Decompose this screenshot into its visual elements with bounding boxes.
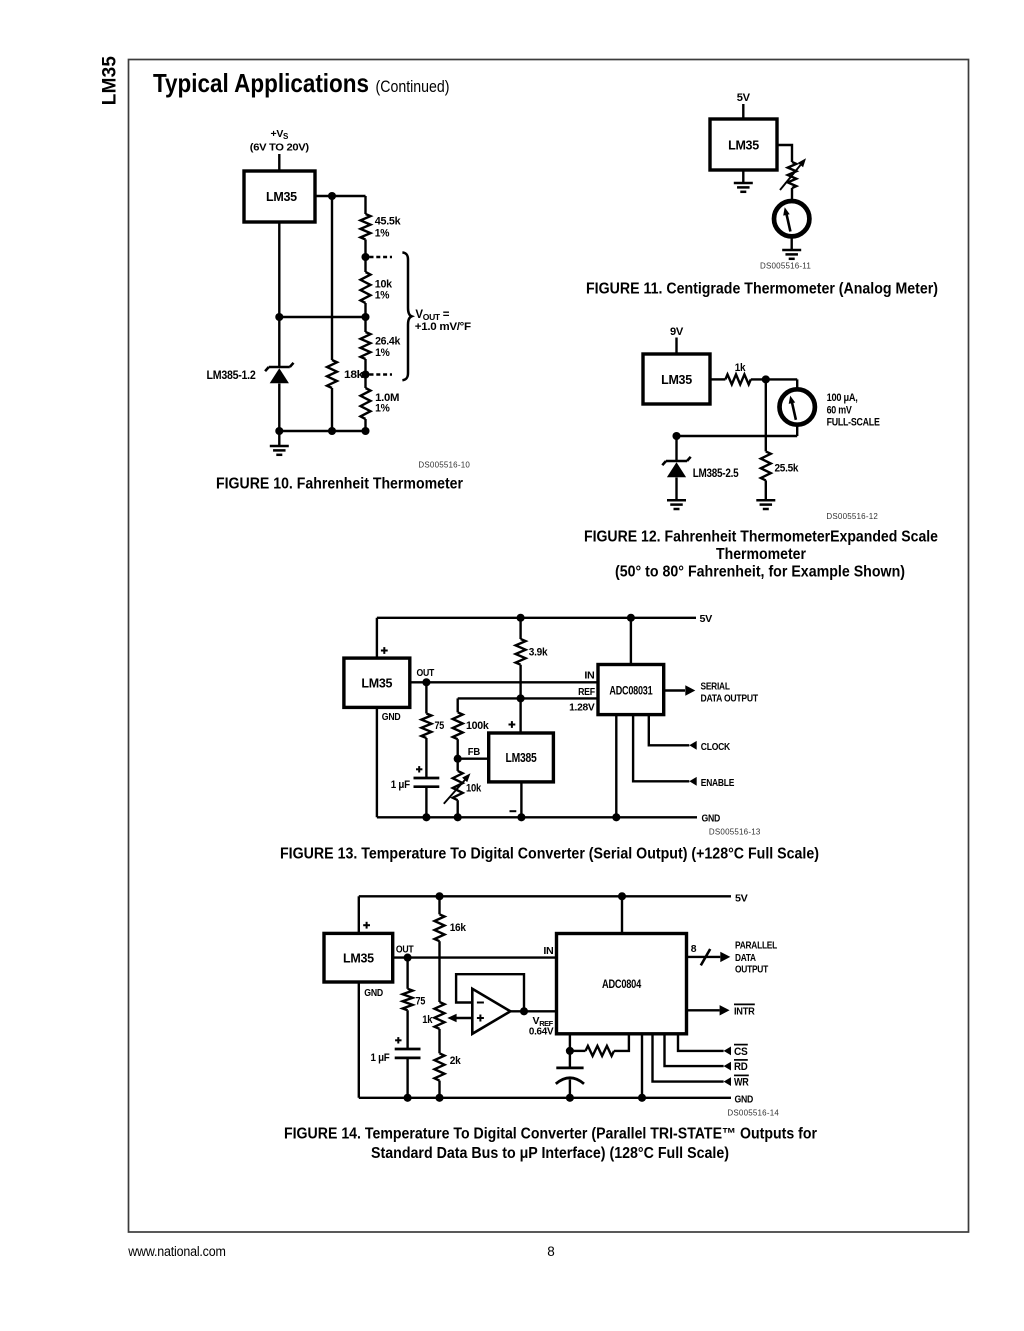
svg-text:INTR: INTR [734,1005,755,1017]
wire R4 to ground rail [364,419,366,431]
figure 13: Temperature to digital converter (serial) schematic [280,613,819,862]
wire 5V rail to ADC U9 [621,896,623,933]
wire node E down to resistor R8 [765,379,767,451]
LM385 plus terminal marker [509,724,516,726]
junction node H (3.9k/REF) [517,694,525,702]
wire R1 to R2 [364,240,366,273]
ground symbol [278,431,280,446]
junction 5V/ADC [627,614,635,622]
sensor IC U3 LM35 body [643,354,710,404]
sensor IC U7 LM35 body [324,933,393,982]
resistor R15 2k body [435,1053,445,1080]
resistor R7 1k body [725,374,750,384]
svg-text:8: 8 [547,1244,555,1259]
wire R13 to trimmer R14 [438,941,440,1002]
svg-text:GND: GND [382,711,401,723]
net 5V rail wire [359,895,731,897]
wire corner down to meter M2 [796,379,798,388]
svg-text:DS005516-11: DS005516-11 [760,262,811,271]
wire R7 to node E and meter [751,378,797,380]
svg-text:GND: GND [364,987,383,999]
output brace [402,252,411,380]
wire R3 to R4 [364,359,366,388]
junction 5V/16k [435,892,443,900]
svg-text:5V: 5V [737,92,751,104]
svg-text:1%: 1% [375,403,390,415]
svg-text:LM35: LM35 [100,56,121,106]
wire node A down to resistor chain [364,196,366,214]
svg-text:1%: 1% [375,347,390,359]
RD input arrowhead [724,1062,731,1071]
junction node J (OUT/75) [404,954,412,962]
wire U3 output to resistor R7 [710,378,725,380]
wire ADC enable pin [633,715,689,782]
ground symbol below meter M1 [782,249,801,252]
junction tap node B (45.5k/10k) [361,253,369,261]
wire R6 to meter M1 [791,188,793,202]
junction dots on ground rail [404,1094,412,1102]
wire M1 to ground [791,236,793,249]
svg-text:3.9k: 3.9k [529,646,549,658]
parallel data output arrowhead [720,952,730,962]
wire U8 output to ADC VREF pin [510,1010,556,1012]
junction node G (OUT/75) [422,678,430,686]
svg-text:Standard Data Bus to μP Interf: Standard Data Bus to μP Interface) (128°… [371,1145,729,1162]
svg-text:ADC08031: ADC08031 [609,685,653,697]
svg-text:10k: 10k [466,782,482,794]
svg-text:FIGURE 10. Fahrenheit Thermome: FIGURE 10. Fahrenheit Thermometer [216,476,463,493]
wire U1 output to node A [315,195,366,197]
figure 10: Fahrenheit Thermometer schematic [207,128,472,493]
svg-text:OUT: OUT [396,943,414,955]
svg-text:CS: CS [734,1046,748,1058]
reference IC U5 LM385 body [489,733,554,782]
capacitor C2 plus marker [395,1039,401,1041]
svg-text:100k: 100k [466,720,490,732]
op-amp U8 buffer body [472,989,510,1034]
svg-text:75: 75 [435,720,445,732]
trimmer R12 10k body [453,771,463,800]
svg-text:RD: RD [734,1061,748,1073]
junction U8 output/feedback [520,1007,528,1015]
svg-text:DATA OUTPUT: DATA OUTPUT [701,693,759,705]
parallel data output bus wire [687,956,721,958]
svg-text:1.28V: 1.28V [569,701,595,713]
svg-text:100 μA,: 100 μA, [827,392,858,404]
dashed tap wire node B to brace [370,256,393,258]
figure 12: Fahrenheit expanded scale thermometer schematic [584,326,938,580]
wire U7 OUT to ADC IN [393,956,557,958]
svg-text:75: 75 [416,995,426,1007]
wire C3 to ground rail [569,1080,571,1098]
svg-text:GND: GND [702,812,721,824]
wire R15 to ground rail [438,1081,440,1098]
wire R10 to REF node H and LM385 plus [519,665,521,733]
svg-text:2k: 2k [450,1055,462,1067]
svg-text:LM35: LM35 [343,951,374,965]
enable input arrowhead [689,777,696,786]
svg-text:FULL-SCALE: FULL-SCALE [827,416,880,428]
svg-text:ADC0804: ADC0804 [602,977,641,991]
wire 5V to resistor R10 3.9k [519,618,521,639]
wire 5V rail down to LM35 U4 plus pin [376,618,378,658]
svg-text:LM385-2.5: LM385-2.5 [693,466,739,480]
serial data output wire [664,689,685,691]
svg-text:8: 8 [691,943,697,955]
junction tap node D (26.4k/1.0M) [361,370,369,378]
wire node C to LM385 cathode column [279,316,365,318]
ground rail wire [359,1097,731,1099]
wire 5V rail to LM35 U7 plus pin [358,896,360,933]
junction 5V/ADC [618,892,626,900]
ADC IC U6 ADC08031 body [598,665,664,715]
svg-text:FIGURE 13. Temperature To Digi: FIGURE 13. Temperature To Digital Conver… [280,845,819,862]
clock input arrowhead [689,741,696,750]
wire node K to resistor R17 [570,1050,586,1052]
net 5V rail wire [377,617,696,619]
junction node E (R7/meter/R8) [762,375,770,383]
wire R12 to ground rail [457,800,459,817]
return wire meter to LM385 node F [677,435,798,437]
wire ADC ground pin to rail [615,715,617,818]
wire FB node to LM385 U5 [458,758,489,760]
wire node G to resistor R9 [425,682,427,713]
wire R5 to ground rail [331,388,333,431]
svg-text:REF: REF [578,686,596,698]
svg-text:16k: 16k [450,922,467,934]
wire ADC VREF/2 pin to filter node K [569,1034,571,1068]
svg-text:LM385-1.2: LM385-1.2 [207,368,257,382]
svg-text:FIGURE 12. Fahrenheit Thermome: FIGURE 12. Fahrenheit ThermometerExpande… [584,529,938,546]
svg-text:IN: IN [543,945,553,957]
junction 5V/3.9k [517,614,525,622]
svg-text:IN: IN [584,669,594,681]
svg-text:www.national.com: www.national.com [127,1244,225,1259]
svg-text:1k: 1k [735,362,747,374]
wire +Vs to LM35 U1 pin [278,154,280,171]
svg-text:DS005516-10: DS005516-10 [418,461,470,470]
wire U2 output to calibration resistor R6 [777,145,792,162]
svg-text:60 mV: 60 mV [827,405,853,417]
U8 non-inverting input marker [477,1017,484,1019]
page border frame [129,60,969,1233]
wire FB node to trimmer R12 [457,759,459,771]
svg-text:LM35: LM35 [728,139,759,153]
svg-text:GND: GND [735,1093,754,1105]
wire R14 to resistor R15 2k [438,1029,440,1053]
svg-text:LM385: LM385 [506,751,537,765]
junction node F (LM385/return) [672,432,680,440]
junction node C left end [275,313,283,321]
wire node J to resistor R16 [406,958,408,989]
svg-text:OUT: OUT [417,667,435,679]
junction dots on ground rail [422,813,430,821]
capacitor C1 1uF plates [414,777,440,780]
wire C2 to ground rail [406,1059,408,1098]
variable resistor R6 body [788,162,797,188]
wire REF node to resistor R11 100k [457,698,459,712]
capacitor C3 curved plate [556,1078,584,1084]
wire U7 GND to ground rail [358,982,360,1098]
wire R8 to ground [765,480,767,500]
resistor R5 18k body [327,360,337,388]
sensor IC U2 LM35 body [710,119,777,170]
wire meter M2 bottom to return line [796,425,798,436]
svg-text:SERIAL: SERIAL [701,680,731,692]
svg-text:26.4k: 26.4k [375,335,401,347]
wire U5 bottom to ground rail [520,782,522,817]
wire R2 to R3 [364,303,366,332]
svg-text:FB: FB [468,746,481,758]
svg-text:ENABLE: ENABLE [701,777,735,789]
svg-text:+1.0 mV/°F: +1.0 mV/°F [415,321,472,333]
svg-text:5V: 5V [735,893,748,905]
capacitor C1 plus marker [416,768,422,770]
CS input arrowhead [724,1047,731,1056]
resistor R3 26.4k body [361,332,371,359]
svg-text:DS005516-14: DS005516-14 [727,1108,779,1117]
junction FB node [454,755,462,763]
sensor IC U1 LM35 body [244,171,315,222]
U7 plus terminal marker [363,924,370,926]
junction filter node K [566,1047,574,1055]
dashed tap wire node D to brace [370,373,393,375]
svg-text:FIGURE 14. Temperature To Digi: FIGURE 14. Temperature To Digital Conver… [284,1125,817,1142]
wire ADC RD pin [665,1034,724,1066]
wire ADC clock pin [649,715,690,746]
ground symbol below D2 [667,499,686,502]
wire D2 anode to ground [675,478,677,501]
svg-text:5V: 5V [700,613,713,625]
wire U2 GND pin [742,170,744,183]
svg-text:1 μF: 1 μF [371,1052,391,1064]
svg-text:LM35: LM35 [266,190,297,204]
wire R11 to FB node [457,739,459,759]
figure 11: Centigrade Thermometer schematic [586,92,938,298]
wire 5V rail to ADC U6 [630,618,632,665]
svg-text:9V: 9V [670,326,684,338]
ADC IC U9 ADC0804 body [557,934,687,1034]
wire ADC WR pin [653,1034,724,1082]
wire LM35 ground pin down to reference D1 [278,222,280,367]
svg-text:DS005516-13: DS005516-13 [709,827,761,836]
reference diode D2 LM385-2.5 symbol [666,460,687,463]
resistor R17 body [586,1046,615,1056]
R14 wiper arrow to op-amp input [456,1017,473,1019]
svg-text:1k: 1k [422,1014,433,1026]
resistor R4 1.0M body [361,388,371,419]
wire 5V to resistor R13 16k [438,896,440,914]
svg-text:LM35: LM35 [361,677,392,691]
capacitor C3 top plate [556,1067,583,1070]
serial data output arrowhead [685,685,695,695]
junction node A (output/18k) [328,192,336,200]
svg-text:DS005516-12: DS005516-12 [826,512,878,521]
svg-text:DATA: DATA [735,952,756,964]
bus width slash [701,949,710,965]
svg-text:LM35: LM35 [661,373,692,387]
wire 9V to LM35 U3 [675,338,677,355]
U4 plus terminal marker [381,650,388,652]
wire REF line to ADC REF pin [458,697,598,699]
svg-text:(6V TO 20V): (6V TO 20V) [250,142,309,154]
resistor R5 18k column wire upper [331,196,333,360]
R6 adjustment arrow [780,165,801,190]
resistor R10 3.9k body [516,639,526,665]
svg-text:1%: 1% [375,290,390,302]
figure 14: Temperature to digital converter (parallel) schematic [284,892,817,1162]
resistor R11 100k body [453,712,463,739]
svg-text:(50° to 80° Fahrenheit, for Ex: (50° to 80° Fahrenheit, for Example Show… [615,563,905,580]
svg-text:1%: 1% [375,227,390,239]
wire U4 GND to ground rail [376,707,378,817]
svg-text:1 μF: 1 μF [391,779,411,791]
reference diode D1 LM385-1.2 symbol [269,366,290,369]
resistor R2 10k body [361,272,371,303]
svg-text:PARALLEL: PARALLEL [735,940,778,952]
svg-text:WR: WR [734,1077,749,1089]
wire C1 to ground rail [425,788,427,817]
junction node C (10k/26.4k/LM385) [361,313,369,321]
resistor R1 45.5k body [361,214,371,240]
resistor R8 25.5k body [761,451,771,480]
resistor R9 75 body [421,714,431,739]
wire R9 to capacitor C1 [425,738,427,777]
interrupt output wire [687,1009,720,1011]
wire 5V to LM35 U2 [742,104,744,119]
svg-text:18k: 18k [344,369,364,381]
svg-text:Typical Applications: Typical Applications [153,68,369,98]
wire node F to reference D2 [675,436,677,461]
svg-text:(Continued): (Continued) [376,77,450,96]
ground rail wire [279,430,365,432]
wire R17 to ADC pin stub [614,1034,629,1051]
analog meter M1 [774,201,809,236]
wire ADC CS pin [678,1034,724,1051]
resistor R16 75 body [403,989,413,1011]
junction dots on ground rail [275,427,283,435]
U5 minus terminal marker [510,810,517,812]
ground rail wire [377,816,697,818]
wire ADC GND pin to rail [641,1034,643,1098]
wire U4 OUT to ADC IN [410,681,598,683]
WR input arrowhead [724,1077,731,1086]
svg-text:CLOCK: CLOCK [701,741,731,753]
ground symbol below U2 [734,182,753,185]
svg-text:FIGURE 11. Centigrade Thermome: FIGURE 11. Centigrade Thermometer (Analo… [586,281,938,298]
svg-text:Thermometer: Thermometer [716,546,806,563]
wire D1 anode to ground rail [278,384,280,432]
ground symbol below R8 [756,499,775,502]
resistor R13 16k body [435,914,445,941]
sensor IC U4 LM35 body [344,658,410,707]
trimmer R14 1k body [435,1002,445,1029]
U8 inverting input marker [477,1002,484,1004]
R12 adjustment arrow [444,779,466,804]
svg-text:25.5k: 25.5k [775,463,800,475]
svg-text:0.64V: 0.64V [529,1026,554,1038]
svg-text:OUTPUT: OUTPUT [735,964,769,976]
svg-text:45.5k: 45.5k [375,215,402,227]
capacitor C2 1uF plates [395,1048,421,1051]
wire R16 to capacitor C2 [406,1010,408,1048]
analog meter M2 [780,389,815,424]
interrupt output arrowhead [720,1005,730,1015]
U8 feedback wire [456,974,524,1011]
